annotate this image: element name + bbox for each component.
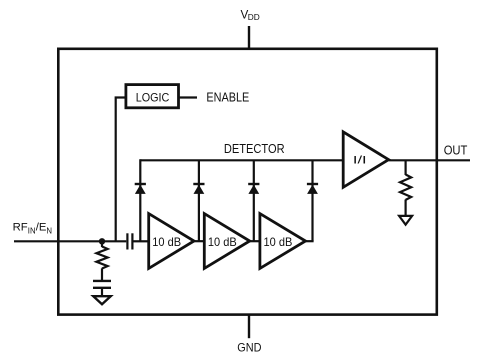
capacitor C1 (input coupling) <box>126 233 128 249</box>
ground (input termination) <box>101 288 103 296</box>
diode D3 <box>253 160 255 241</box>
svg-text:OUT: OUT <box>444 143 468 158</box>
svg-text:GND: GND <box>237 341 261 355</box>
svg-text:DD: DD <box>248 13 260 22</box>
svg-text:RF: RF <box>13 221 28 233</box>
logic block U2 <box>126 85 179 108</box>
op-amp U1 (I/I converter) <box>343 132 388 187</box>
wire detector bus <box>140 159 343 161</box>
wire output <box>389 159 470 161</box>
wire GND stub <box>248 315 250 339</box>
svg-text:IN: IN <box>28 227 36 236</box>
wire R2 to ground <box>405 200 407 216</box>
ground (output) <box>399 216 412 225</box>
wire A2 to A3 <box>250 240 260 242</box>
svg-text:10 dB: 10 dB <box>208 235 237 249</box>
wire A3 output <box>306 240 314 242</box>
diode D2 <box>198 160 200 241</box>
svg-text:10 dB: 10 dB <box>264 235 293 249</box>
svg-text:/E: /E <box>36 221 47 233</box>
svg-text:LOGIC: LOGIC <box>136 90 170 104</box>
wire VDD stub <box>248 26 250 49</box>
wire R1 to C2 <box>101 268 103 280</box>
capacitor C2 (shunt) <box>93 280 111 282</box>
svg-text:I/I: I/I <box>353 154 367 166</box>
svg-text:ENABLE: ENABLE <box>206 90 249 105</box>
wire A1 to A2 <box>194 240 204 242</box>
resistor R2 (output load) <box>405 160 407 175</box>
svg-text:10 dB: 10 dB <box>152 235 181 249</box>
resistor R1 (input termination) <box>101 241 103 247</box>
svg-text:DETECTOR: DETECTOR <box>224 141 285 156</box>
wire C1 to amp A1 <box>134 240 149 242</box>
svg-text:N: N <box>46 227 52 236</box>
diode D4 <box>311 160 313 241</box>
diode D1 <box>139 159 141 241</box>
wire logic to enable pin <box>179 96 198 98</box>
amplifier A2 <box>204 214 249 269</box>
amplifier A3 <box>260 214 306 269</box>
wire logic to input node <box>116 98 126 242</box>
node input junction <box>99 238 105 244</box>
wire input <box>14 240 126 242</box>
chip boundary <box>58 49 437 315</box>
amplifier A1 <box>149 214 194 269</box>
